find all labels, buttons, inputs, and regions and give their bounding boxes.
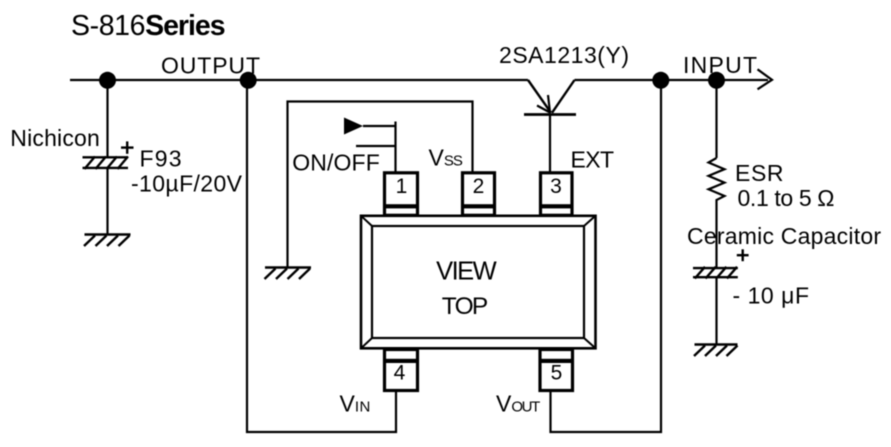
svg-text:4: 4 — [394, 361, 406, 384]
svg-text:VIEW: VIEW — [436, 258, 497, 286]
svg-text:S-816Series: S-816Series — [71, 10, 226, 42]
svg-text:INPUT: INPUT — [683, 52, 757, 78]
svg-text:3: 3 — [550, 175, 562, 198]
svg-text:2SA1213(Y): 2SA1213(Y) — [499, 42, 629, 68]
svg-text:TOP: TOP — [442, 293, 489, 320]
svg-text:5: 5 — [551, 361, 563, 384]
svg-text:1: 1 — [396, 175, 408, 198]
svg-text:ESR: ESR — [735, 160, 784, 186]
svg-text:- 10 μF: - 10 μF — [733, 282, 810, 308]
svg-text:EXT: EXT — [571, 147, 615, 173]
svg-text:ON/OFF: ON/OFF — [292, 150, 380, 176]
svg-text:0.1 to 5 Ω: 0.1 to 5 Ω — [738, 185, 835, 211]
svg-text:OUTPUT: OUTPUT — [161, 53, 260, 79]
svg-text:Ceramic Capacitor: Ceramic Capacitor — [687, 223, 881, 249]
svg-text:-10µF/20V: -10µF/20V — [131, 171, 243, 197]
svg-text:F93: F93 — [140, 146, 182, 172]
svg-text:2: 2 — [473, 175, 485, 198]
svg-text:Nichicon: Nichicon — [10, 125, 100, 151]
